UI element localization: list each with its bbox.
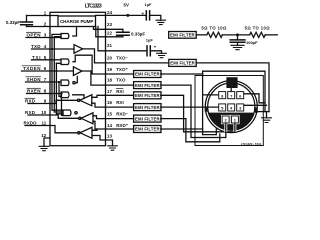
connector side key right [254,107,257,111]
svg-text:1µF: 1µF [146,38,154,43]
EMI filter FL4 (TXO) [134,82,161,89]
DIN pin 6 square [237,92,244,99]
wire A5 input lower [92,136,106,141]
svg-text:22: 22 [107,30,113,35]
pin 4 wire TXD [32,48,51,50]
connector key notch [226,77,237,88]
svg-text:RXEN: RXEN [27,89,41,94]
svg-text:14: 14 [107,123,113,128]
svg-text:OPEN: OPEN [27,33,41,38]
pin 18 wire TXO [106,84,134,86]
wire left bus D from RXEN [62,94,64,116]
svg-text:0.33µF: 0.33µF [131,32,145,37]
svg-text:LTC1323 • TA01: LTC1323 • TA01 [241,142,262,146]
svg-text:RXD: RXD [25,99,36,104]
pin 22 wire [106,35,123,37]
wire G4 out [73,95,84,98]
svg-text:15: 15 [107,111,113,116]
wire bus tail to shell [203,129,217,135]
wire FL1 to R1 [196,34,207,36]
ground GND mid [157,53,167,57]
gate G3 [61,80,69,86]
ground GND top [156,20,166,24]
svg-text:CHARGE PUMP: CHARGE PUMP [60,19,94,24]
wire A3 out to pin9 [50,100,77,103]
svg-text:TXO⁺: TXO⁺ [116,67,128,72]
wire net TXD- top run [196,63,269,112]
resistor R2 5-10 ohm [250,32,266,37]
pin 24 wire to 5V [106,14,147,16]
pin 15 wire RXD- [106,118,134,120]
svg-text:10: 10 [41,110,47,115]
svg-text:TXD: TXD [31,44,41,49]
wire TXO net [161,85,226,137]
svg-text:LTC1323: LTC1323 [85,3,102,9]
pin 7 wire SHDN [26,81,51,83]
wire DIN pin 3 stub [244,104,267,106]
white channels around DIN pins 2,1 [221,115,230,124]
DIN pin 3 square [237,104,244,111]
wire G2 loop to pin 19 [73,55,106,74]
EMI filter FL3 (TXO+) [134,71,161,78]
wire C4 to ground [150,51,161,54]
svg-text:EMI FILTER: EMI FILTER [135,127,160,132]
pin 2 wire [27,26,51,28]
svg-text:EMI FILTER: EMI FILTER [135,83,160,88]
svg-text:20: 20 [107,56,113,61]
node 5V junction [126,14,129,17]
svg-text:17: 17 [107,89,113,94]
capacitor C5 100pF [237,35,239,40]
gate G5 [63,110,71,116]
connector bottom black sector [209,113,255,131]
pin 17 wire RXI(bar) [106,94,134,96]
svg-text:SHDN: SHDN [27,77,41,82]
svg-text:EMI FILTER: EMI FILTER [135,116,160,121]
DIN pin 4 square [228,104,235,111]
svg-text:+: + [141,11,144,16]
svg-text:19: 19 [107,67,113,72]
svg-text:EMI FILTER: EMI FILTER [135,72,160,77]
wire RXD- net [161,119,220,142]
wire vertical bus x202.6 [202,71,204,134]
amplifier A3 receiver [80,95,92,106]
wire A4 input pin15 [93,116,106,119]
wire A3 input pin16 [92,103,106,107]
ground GND 100pF [231,45,244,49]
DIN pin 1 square [231,116,238,123]
wire pin5 to G2 [50,59,61,61]
EMI filter FL8 [134,126,161,133]
wire DIN pin 1 descender [234,123,236,132]
svg-text:5V: 5V [124,2,129,7]
svg-text:EMI FILTER: EMI FILTER [170,61,195,66]
wire left bus C from SHDN [59,82,61,96]
pin 1 wire [27,15,51,17]
EMI filter FL6 [134,104,161,111]
svg-text:1µF: 1µF [145,2,153,7]
svg-text:23: 23 [107,22,113,27]
capacitor C4 1uF polarized [147,46,150,56]
svg-text:EMI FILTER: EMI FILTER [135,105,160,110]
wire bus to DIN pin 8 [203,94,219,96]
svg-text:6: 6 [44,66,47,71]
wire pump to pin21 [98,27,106,51]
wire left bus A from TXD [52,34,63,110]
svg-text:1: 1 [44,10,47,15]
wire net inner run [203,71,265,111]
wire RXD+ to bus [161,128,203,130]
wire A4 input pin14 [93,121,106,129]
svg-text:5Ω TO 10Ω: 5Ω TO 10Ω [245,26,271,31]
svg-text:13: 13 [107,134,113,139]
svg-text:16: 16 [107,100,113,105]
ground GND connector [266,112,268,118]
wire pump to pin22 [96,27,106,37]
pin 19 wire TXO+ [106,73,134,75]
wire G1 input from TXD [50,48,74,50]
pin 21 wire [106,50,148,52]
pin 10 wire RXI [28,114,50,116]
DIN pin 2 square [222,116,229,123]
wire DIN pin 6 stub [244,94,265,103]
capacitor C3 1uF polarized [146,11,149,20]
wire A1 out to pin 20 [83,49,106,63]
node shell junction [255,110,258,113]
connector shell outer circle [205,81,257,133]
amplifier A4 receiver [81,113,93,124]
svg-text:RXD⁻: RXD⁻ [116,111,129,116]
wire bus TXDEN vertical [56,63,63,114]
ground GND left [39,146,49,150]
wire A5 input upper [92,129,97,130]
svg-text:EMI FILTER: EMI FILTER [170,33,195,38]
svg-text:RXD: RXD [25,110,36,115]
wire TXO+ to bus [161,73,203,75]
DIN pin 7 top stub [230,89,232,92]
svg-text:18: 18 [107,77,113,82]
wire R1 to R2 [222,34,249,36]
wire G3 out [75,77,77,83]
gate G2 [61,59,69,65]
wire shell to ground [256,111,269,113]
amplifier A2 driver [73,67,82,76]
svg-text:5Ω TO 10Ω: 5Ω TO 10Ω [201,26,227,31]
svg-text:9: 9 [44,99,47,104]
svg-text:2: 2 [44,21,47,26]
wire A2 out to pin18 [82,71,106,85]
pin 13 wire to ground [106,140,113,146]
svg-text:4: 4 [44,44,47,49]
svg-text:5: 5 [44,55,47,60]
svg-text:TXO⁻: TXO⁻ [116,56,128,61]
svg-text:TXO: TXO [116,77,126,82]
connector shell inner circle [208,83,255,130]
connector side key left [205,107,208,111]
wire A5 out to pin11 [50,126,78,133]
node junction dot [236,33,239,36]
DIN pin 7 square [228,92,235,99]
pin 16 wire RXI [106,106,134,108]
wire R2 out [265,34,277,36]
svg-text:7: 7 [44,77,47,82]
svg-text:RXI: RXI [116,100,124,105]
DIN pin 5 square [219,104,226,111]
pin 23 wire [106,29,123,32]
EMI filter FL2 (TXO-) [169,59,196,66]
wire A4 out to pin10 [50,115,79,118]
svg-text:TXDEN: TXDEN [23,66,41,71]
svg-text:24: 24 [107,10,113,15]
pin 11 wire RXDO [25,125,50,127]
svg-text:21: 21 [107,43,113,48]
svg-text:RXD⁺: RXD⁺ [116,123,129,128]
wire pin7 to G3 [50,81,61,83]
wire pin6 TXDEN bus [50,63,73,71]
capacitor C2 0.33uF plates [117,32,130,35]
wire A3 input pin17 [92,95,106,97]
ground GND right of chip [108,146,118,150]
svg-text:RXDO: RXDO [24,121,37,126]
pin 9 wire RXD [28,103,50,105]
wire DIN pin 2 descender [225,123,227,138]
resistor R1 5-10 ohm [207,32,223,37]
pin 20 wire TXO- [106,62,169,64]
amplifier A5 receiver [80,127,92,138]
EMI filter FL1 (top, shield) [169,32,197,39]
wire RXI(bar) net [161,95,235,132]
pin 6 wire TXDEN [22,70,51,72]
wire pump to pin23 [94,27,106,30]
svg-text:8: 8 [44,89,47,94]
svg-text:3: 3 [44,33,47,38]
svg-text:11: 11 [42,121,47,126]
wire pin8 to G4 [50,93,61,95]
charge pump block [58,16,96,27]
pin 5 wire TXI [32,59,51,61]
wire RXI to DIN pin 5 [161,106,219,108]
gate G4 [61,92,69,98]
DIN pin 8 square [219,92,226,99]
EMI filter FL7 [134,115,161,122]
svg-text:TXI: TXI [32,55,41,60]
wire pin1 internal [50,15,58,17]
svg-text:RXI: RXI [116,89,124,94]
IC U1 LTC1323 body [50,12,106,145]
wire pin3 to G1 [50,37,61,39]
wire pin2 internal [50,26,58,28]
connector J1 housing [195,76,263,146]
svg-text:EMI FILTER: EMI FILTER [135,93,160,98]
pin 14 wire RXD+ [106,128,134,130]
wire C1 stubs [26,16,28,27]
pin 3 wire OPEN [26,37,50,39]
wire left bus B from TXI [54,37,63,112]
capacitor C1 0.33uF plates [21,22,33,25]
wire C3 to ground [150,15,161,20]
pin 12 wire to ground [44,138,50,146]
svg-text:12: 12 [41,133,47,138]
wire G1 output [73,27,77,37]
svg-text:0.33µF: 0.33µF [6,20,20,25]
EMI filter FL5 [134,92,161,99]
pin 8 wire RXEN [27,93,51,95]
svg-text:100pF: 100pF [246,40,258,45]
amplifier A1 driver [74,45,83,54]
wire pump to pin24 [96,14,106,16]
svg-text:+: + [154,45,157,50]
gate G1 [61,34,69,39]
